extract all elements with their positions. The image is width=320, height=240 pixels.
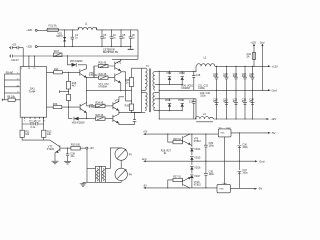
svg-text:R3 4k7: R3 4k7 — [6, 71, 14, 74]
svg-text:VD11: VD11 — [165, 99, 171, 102]
capacitor C7 (series pair on wire to pin) — [9, 44, 23, 50]
svg-text:R30 100: R30 100 — [71, 144, 81, 147]
wire: -12V rail — [214, 118, 267, 120]
wire: diagonal to VT7 base — [50, 140, 60, 147]
svg-text:KT815: KT815 — [194, 183, 202, 186]
svg-text:ВЫПРЯМ. ВЧ: ВЫПРЯМ. ВЧ — [103, 51, 119, 54]
svg-text:600: 600 — [213, 75, 218, 78]
diode VD11 — [165, 98, 171, 110]
capacitor C18 (snubber) — [192, 71, 201, 91]
node: pin15 junction — [34, 55, 35, 56]
svg-text:5A: 5A — [247, 55, 250, 58]
svg-text:VD9: VD9 — [166, 72, 171, 75]
capacitor C25 — [223, 66, 228, 120]
svg-text:3: 3 — [17, 92, 18, 94]
svg-text:Gnd: Gnd — [260, 41, 265, 44]
wire: bottom common of R11/R12 — [22, 137, 50, 140]
wire: VT3 emitter down to VT5 collector — [86, 78, 88, 106]
wire: PV1 to PA1 — [120, 160, 122, 168]
capacitor C29 — [204, 134, 215, 162]
svg-text:-5V: -5V — [258, 187, 262, 191]
svg-text:+12V: +12V — [250, 41, 256, 44]
label -12V rail — [267, 117, 277, 121]
transistor VT9 — [183, 134, 202, 146]
label +12V rail — [268, 64, 278, 68]
choke L1 — [78, 22, 96, 30]
capacitor C3 (bulk filter) — [110, 30, 117, 47]
svg-text:-12V: -12V — [271, 117, 277, 121]
wire pin 12 — [42, 117, 44, 119]
svg-text:+12V: +12V — [272, 64, 279, 68]
wire: +12V rail — [215, 65, 268, 67]
svg-text:VD8 KD209: VD8 KD209 — [72, 122, 85, 125]
wire: -5V rail — [143, 184, 217, 189]
svg-text:11: 11 — [39, 120, 41, 122]
wire fuse to choke — [59, 29, 79, 31]
svg-text:KT3102: KT3102 — [89, 74, 98, 77]
wire: pin 6 drop — [43, 117, 45, 130]
wire: mid node to T1 return — [119, 111, 141, 113]
svg-text:Uout: Uout — [227, 126, 231, 129]
node: chain to Gnd — [191, 161, 192, 162]
capacitor C27 — [242, 66, 247, 120]
svg-text:KT814: KT814 — [194, 140, 202, 143]
capacitor C1 — [71, 30, 79, 47]
left feedback bus — [4, 74, 6, 100]
svg-text:VT2: VT2 — [115, 99, 120, 102]
capacitor C33 (lower row) — [242, 98, 247, 104]
wire pin 2 — [5, 79, 21, 81]
capacitor C8 on aux rail — [9, 55, 138, 62]
svg-text:600: 600 — [223, 75, 228, 78]
svg-text:0.1u: 0.1u — [31, 126, 36, 129]
svg-text:600: 600 — [242, 75, 247, 78]
capacitor C26 — [233, 66, 238, 120]
svg-text:R19: R19 — [125, 105, 130, 108]
svg-text:13: 13 — [17, 85, 19, 87]
wire: rail drop to converter — [137, 30, 139, 59]
wire: +12V cathode rail — [159, 70, 196, 72]
wire pin 9 — [29, 117, 31, 119]
transistor VT4 — [113, 97, 124, 113]
svg-text:R24 45: R24 45 — [96, 102, 104, 105]
wire: DA2 ground leg — [224, 137, 226, 185]
transistor VT1 (power) — [115, 59, 122, 72]
capacitor C36 — [238, 143, 249, 149]
transistor VT2 (power) — [115, 72, 121, 83]
svg-text:R2 8: R2 8 — [54, 50, 60, 53]
diode VD16 — [190, 160, 201, 170]
resistor R7 to pin 5 — [2, 95, 20, 101]
svg-text:2: 2 — [17, 79, 18, 81]
svg-text:4k7: 4k7 — [72, 85, 77, 88]
diode VD15 — [190, 151, 201, 160]
svg-text:KD2997: KD2997 — [182, 87, 191, 90]
capacitor C34 (lower row) — [249, 98, 254, 104]
wire: DA3 output — [230, 187, 262, 191]
svg-text:C19: C19 — [189, 101, 194, 104]
resistor R19 (to VT1 base) — [86, 62, 115, 79]
svg-text:PV: PV — [129, 153, 133, 156]
transistor VT7 — [47, 145, 71, 161]
capacitor C32 (lower row) — [233, 98, 238, 104]
wire pin 1 — [5, 71, 21, 74]
transistor VT6 — [113, 112, 135, 124]
svg-text:VT1: VT1 — [117, 61, 122, 64]
diode VD9 — [166, 71, 171, 85]
svg-text:R39: R39 — [53, 103, 58, 106]
terminal X1 (~220V line) — [26, 28, 37, 32]
wire top rail after choke — [97, 29, 138, 31]
wire: TA1 to meter PV1 — [105, 148, 121, 168]
svg-text:7905: 7905 — [219, 188, 223, 190]
wire: terminal to TA1 — [87, 167, 96, 169]
svg-text:100u: 100u — [242, 146, 248, 149]
svg-text:+C9: +C9 — [12, 44, 17, 47]
svg-text:R14: R14 — [54, 68, 59, 71]
diode VD12 — [178, 99, 185, 111]
resistor R30 — [71, 144, 86, 150]
resistor R17 (DA1 pin8 to VT3) — [47, 68, 80, 74]
wire: VT2 emitter bus — [87, 72, 132, 101]
svg-text:R26 91: R26 91 — [173, 138, 181, 141]
transistor VT3 — [80, 69, 98, 78]
label C21 C22 — [198, 84, 209, 90]
svg-text:C11 C12: C11 C12 — [30, 120, 40, 123]
svg-text:-5V: -5V — [271, 131, 275, 135]
wire pin 7 — [24, 117, 26, 119]
svg-text:~220: ~220 — [26, 28, 33, 32]
wire pin 10 — [34, 117, 36, 119]
svg-text:7: 7 — [24, 120, 25, 122]
transistor VT5 — [80, 103, 98, 113]
node: pin16 junction — [28, 55, 29, 56]
transformer T1 — [132, 65, 160, 112]
thermistor R2 (box with slash) on aux rail — [53, 50, 62, 56]
svg-text:VD10: VD10 — [179, 72, 186, 75]
svg-text:Gnd: Gnd — [259, 159, 265, 163]
capacitor C30 (lower row) — [213, 98, 218, 104]
capacitor C2 (bulk filter) — [100, 30, 107, 47]
wire bottom input rail — [37, 46, 131, 48]
svg-text:100u: 100u — [209, 145, 215, 148]
svg-text:C10 47: C10 47 — [11, 59, 19, 62]
svg-text:C18: C18 — [196, 74, 201, 77]
label VD9 VD10 type — [181, 84, 194, 90]
diode VD8 — [69, 113, 88, 125]
ground (VT7 emitter) — [52, 161, 59, 164]
svg-text:KT209: KT209 — [47, 148, 55, 151]
resistor R15 (vertical, base divider) — [66, 72, 76, 89]
svg-text:1200u: 1200u — [198, 87, 205, 90]
wire: VT1 collector rail — [112, 58, 138, 60]
svg-text:VD14: VD14 — [194, 148, 201, 151]
wire pin 13 — [5, 85, 21, 87]
terminal +5V standby — [86, 147, 94, 150]
svg-text:1: 1 — [17, 73, 18, 75]
transformer TA1 (current) — [96, 166, 106, 182]
resistor R11 (vertical) — [20, 130, 30, 137]
svg-text:VD12: VD12 — [178, 99, 185, 102]
pin numbers — [24, 120, 45, 122]
svg-text:PA: PA — [129, 174, 132, 177]
capacitor C16 (primary divider) — [133, 112, 137, 125]
transistor VT10 — [183, 176, 202, 188]
resistor R38 (DA1 pin11 to VT5) — [47, 103, 81, 109]
diode VD14 — [190, 134, 201, 152]
label VT1 VT2 type — [99, 83, 110, 89]
wire: +5V rail — [143, 131, 218, 136]
terminal Gnd out — [260, 41, 265, 90]
svg-text:R20 45: R20 45 — [99, 62, 107, 65]
capacitor C19 — [189, 98, 196, 119]
capacitor C37 — [238, 169, 249, 175]
label C23 C30 — [200, 92, 211, 97]
fuse FU2 (vertical) — [247, 41, 257, 66]
inductor L2 — [196, 57, 215, 72]
wire: terminal drop — [86, 149, 88, 182]
wire: lower cathode rail — [159, 98, 196, 100]
diode VD17 — [190, 170, 201, 188]
capacitor C38 — [66, 148, 76, 162]
wire: secondary bus — [158, 72, 160, 119]
capacitor C4 (bulk filter) — [119, 30, 126, 47]
svg-text:-5V: -5V — [143, 184, 147, 187]
svg-text:VD15: VD15 — [194, 157, 201, 160]
svg-text:R22 45: R22 45 — [99, 73, 107, 76]
label: mains rectifier caption — [103, 49, 119, 54]
svg-text:10u: 10u — [70, 155, 75, 158]
svg-text:R9 10k: R9 10k — [7, 95, 15, 98]
capacitor C35 — [204, 161, 215, 188]
svg-text:VD16: VD16 — [194, 166, 201, 169]
op-amp U1 TL494 — [20, 67, 46, 118]
diode VD10 — [179, 71, 186, 84]
ground (C38) — [64, 161, 71, 164]
wire X1 to fuse — [37, 29, 47, 31]
chassis termination bar — [128, 48, 134, 51]
wire: Gnd rail — [159, 89, 268, 91]
svg-text:+5V: +5V — [89, 147, 94, 150]
wire: TA1 bottom to ground — [83, 181, 96, 183]
resistor R23 (snubber, vertical) — [125, 68, 134, 104]
resistor R12 (vertical) — [42, 130, 52, 137]
svg-text:7905: 7905 — [220, 133, 224, 135]
svg-text:~220: ~220 — [26, 45, 33, 49]
wire: pin 5 drop — [21, 117, 23, 130]
svg-text:Uout: Uout — [223, 182, 227, 185]
capacitor C12 (timing, series pair) — [22, 120, 44, 128]
capacitor C5 (bulk filter) — [129, 30, 136, 49]
resistor R23b (to VT4 base) — [87, 102, 113, 108]
wire: drive node to T1 — [121, 71, 126, 73]
svg-text:100u: 100u — [209, 173, 215, 176]
wire: C7 down to DA1 pin — [22, 48, 24, 67]
svg-text:VD17: VD17 — [194, 175, 201, 178]
svg-text:MZ72: MZ72 — [57, 35, 64, 38]
svg-text:R26 45: R26 45 — [96, 114, 104, 117]
svg-text:100u: 100u — [242, 172, 248, 175]
svg-text:16: 16 — [28, 68, 30, 70]
wire: rail to DA1 pins — [29, 56, 35, 67]
diode VD5 — [67, 55, 87, 68]
fuse FU1 — [47, 24, 59, 31]
svg-text:150u: 150u — [200, 94, 206, 97]
junction dots — [64, 29, 206, 161]
svg-text:VD5 KD209: VD5 KD209 — [70, 60, 83, 63]
svg-text:600: 600 — [233, 75, 238, 78]
svg-text:Gnd: Gnd — [272, 88, 278, 92]
terminal X2 (~220V neutral) — [26, 45, 37, 49]
wire: DA2 output to -5V arrow — [231, 131, 276, 135]
svg-text:Uin: Uin — [219, 127, 222, 129]
wire: bottom return to T1 — [126, 101, 142, 113]
wire: tap row — [159, 83, 182, 85]
meter PA1 (ammeter) — [115, 168, 132, 180]
wire: lower tap row — [159, 110, 182, 112]
regulator DA3 — [217, 182, 230, 193]
wire: cap bus — [238, 133, 240, 188]
ground (meter return) — [80, 182, 86, 186]
resistor R16 (vertical, base divider) — [66, 95, 70, 119]
svg-text:KT809A: KT809A — [99, 85, 108, 88]
resistor R21 (to VT2 base) — [94, 66, 115, 79]
label R26 R27 — [161, 150, 172, 156]
capacitor C28 — [249, 66, 254, 120]
capacitor C24 — [213, 66, 218, 120]
inductor L3 — [159, 99, 213, 122]
resistor R26 (VT9 base) — [167, 134, 182, 144]
svg-text:+5V: +5V — [143, 131, 148, 134]
svg-text:600: 600 — [249, 75, 254, 78]
varistor RU1 — [57, 30, 67, 47]
resistor R25b (to VT6 base) — [87, 114, 113, 120]
wire: PA1 bottom return — [105, 181, 121, 183]
svg-text:15: 15 — [33, 68, 35, 70]
regulator DA2 — [218, 126, 231, 137]
wire pin 11 — [38, 117, 40, 119]
svg-text:Gnd: Gnd — [142, 158, 147, 161]
svg-text:R27 91: R27 91 — [173, 176, 181, 179]
svg-text:FU1 5A: FU1 5A — [49, 24, 58, 27]
label Gnd rail — [268, 88, 277, 92]
node: divider tap with stub — [60, 89, 69, 95]
wire: Gnd mid rail — [142, 158, 265, 164]
resistor R27 (VT10 base) — [167, 176, 182, 189]
resistor R24 (snubber 2, vertical) — [125, 104, 134, 112]
wire pin 3 — [5, 92, 21, 94]
meter PV1 (voltmeter) — [115, 148, 132, 160]
capacitor C31 (lower row) — [223, 98, 228, 104]
svg-text:4: 4 — [21, 68, 22, 70]
svg-text:TL494: TL494 — [29, 90, 36, 93]
